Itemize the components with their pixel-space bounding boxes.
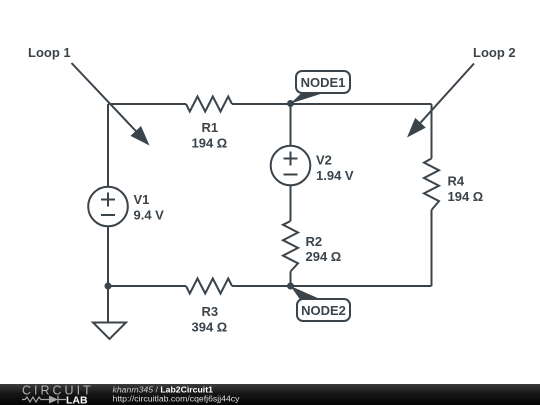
node dot NODE1 [287, 100, 294, 107]
voltage source V1 [88, 187, 128, 227]
node dot NODE2 [287, 283, 294, 290]
wire bottom-left horizontal [108, 285, 186, 287]
wire middle vertical lower [290, 272, 292, 287]
loop arrow Loop 2 [407, 64, 474, 138]
wire right vertical upper [431, 104, 433, 159]
wire top-left horizontal [108, 103, 186, 105]
NODE2 label box [297, 299, 350, 321]
svg-text:394 Ω: 394 Ω [192, 320, 228, 335]
svg-text:1.94 V: 1.94 V [316, 168, 354, 183]
svg-text:V2: V2 [316, 153, 332, 168]
V1 minus sign [101, 214, 115, 216]
svg-text:NODE2: NODE2 [301, 303, 346, 318]
wire middle vertical upper [290, 104, 292, 146]
svg-text:http://circuitlab.com/cqefj6sj: http://circuitlab.com/cqefj6sjj44cy [113, 393, 241, 403]
svg-text:R3: R3 [202, 304, 219, 319]
wire bottom-right horizontal [291, 285, 432, 287]
wire middle vertical between V2 and R2 [290, 186, 292, 222]
svg-text:R4: R4 [448, 174, 465, 189]
wire bottom-middle horizontal [232, 285, 291, 287]
wire right vertical lower [431, 210, 433, 286]
junction dot ground [105, 283, 112, 290]
svg-text:Loop 1: Loop 1 [28, 45, 71, 60]
NODE1 label box [296, 71, 350, 93]
ground triangle [93, 323, 126, 340]
resistor R2 [283, 221, 298, 272]
svg-text:R2: R2 [306, 234, 323, 249]
svg-text:294 Ω: 294 Ω [306, 249, 342, 264]
ground stem [107, 286, 109, 323]
wire left vertical upper [107, 104, 109, 186]
resistor R4 [424, 159, 439, 211]
svg-text:LAB: LAB [66, 395, 88, 405]
svg-text:194 Ω: 194 Ω [192, 136, 228, 151]
svg-text:Loop 2: Loop 2 [473, 45, 516, 60]
footer logo resistor squiggle and diode [22, 396, 66, 404]
wire top-right horizontal [232, 103, 432, 105]
V1 plus sign [101, 193, 115, 207]
V2 plus sign [284, 152, 298, 166]
svg-text:9.4 V: 9.4 V [134, 208, 165, 223]
NODE1 label tail [291, 94, 323, 104]
V2 minus sign [284, 174, 298, 176]
wire left vertical lower [107, 227, 109, 286]
svg-text:NODE1: NODE1 [301, 75, 346, 90]
resistor R3 [186, 279, 232, 294]
voltage source V2 [271, 146, 311, 186]
svg-text:V1: V1 [134, 192, 150, 207]
NODE2 label tail [291, 286, 322, 300]
svg-text:194 Ω: 194 Ω [448, 189, 484, 204]
svg-text:R1: R1 [202, 120, 219, 135]
loop arrow Loop 1 [72, 63, 150, 146]
resistor R1 [186, 97, 232, 112]
